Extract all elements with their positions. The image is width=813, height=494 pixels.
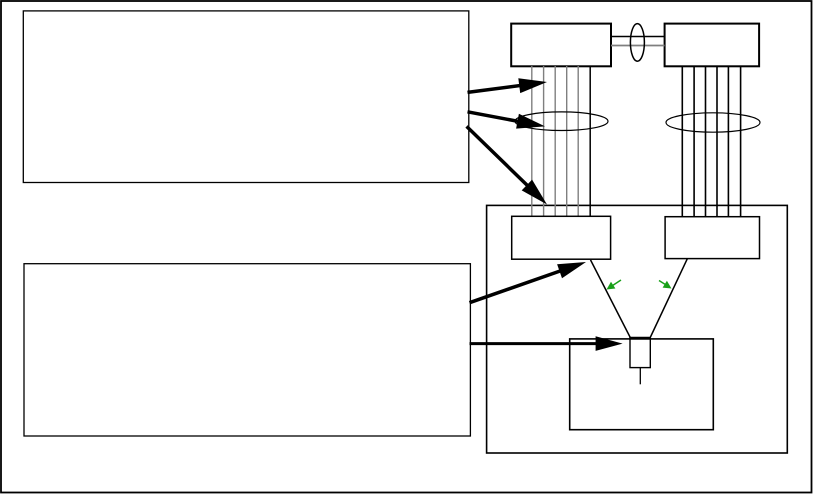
callout arrow 1 (to top of left bundle) (468, 84, 531, 92)
left beam bundle (gray rays) (532, 66, 578, 216)
green arrow left (at converging beam) (611, 280, 622, 287)
box B2 (large empty rectangle, bottom-left) (24, 264, 470, 436)
lens ellipse left (515, 112, 608, 131)
right beam bundle (black rays) (682, 66, 740, 217)
lens ellipse right (666, 113, 760, 132)
mirror box left (inside enclosure) (512, 216, 611, 259)
box B1 (large empty rectangle, top-left) (23, 11, 469, 183)
callout arrow 4 (to start of converging beam) (470, 268, 571, 303)
lamp house box right (top) (665, 24, 760, 67)
coupling rod black line between lamp houses (611, 36, 665, 38)
tool box thick top edge (focal line) (629, 337, 651, 340)
callout arrow 2 (to left lens) (468, 112, 529, 124)
coupling rod gray line between lamp houses (611, 45, 665, 47)
coupler ellipse between lamp houses (630, 24, 644, 62)
mirror box right (inside enclosure) (665, 217, 759, 259)
needle below tool (639, 368, 641, 385)
tool box (bond point insert) (630, 338, 650, 367)
green arrow right (at converging beam) (659, 281, 668, 286)
converging beam right (650, 259, 687, 338)
callout arrow 3 (to bundle at enclosure top) (467, 126, 535, 192)
lamp house box left (top) (511, 24, 611, 67)
stage (work table) (570, 339, 714, 430)
converging beam left (591, 260, 631, 338)
left beam bundle black edge ray (589, 66, 591, 216)
callout arrow 5 (to tool box) (470, 342, 607, 345)
enclosure (process chamber, bottom-right) (487, 205, 788, 453)
